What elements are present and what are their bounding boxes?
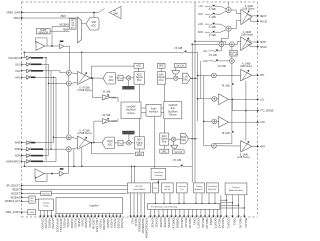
block audio interface bbox=[146, 104, 161, 116]
switch IN2R input bbox=[26, 154, 30, 157]
wire SPK mute L to sum A bbox=[218, 47, 222, 51]
mixer A5 REC sum P bbox=[226, 7, 231, 12]
wire U4 output bbox=[45, 45, 60, 47]
node VREF_SAR junction bbox=[93, 12, 95, 14]
svg-text:RECM: RECM bbox=[260, 21, 267, 23]
svg-text:MICBIAS_EXT: MICBIAS_EXT bbox=[5, 200, 21, 203]
block miniDSP_A digital mixer bbox=[121, 102, 141, 118]
wire MIC bias to charge pump bbox=[35, 199, 38, 201]
pin CPVSS bottom bbox=[43, 210, 45, 216]
wire interrupt stubs to bar bbox=[178, 193, 180, 204]
chip boundary dashed border top bbox=[22, 1, 258, 3]
wire bar to primary links bbox=[220, 199, 227, 201]
svg-text:DAC: DAC bbox=[183, 78, 188, 81]
mux M1 input list box bbox=[70, 19, 77, 29]
wire PGA L output bbox=[91, 77, 103, 79]
wire HPF R to multiplier bbox=[123, 142, 127, 144]
pin DVDD2 bottom bbox=[116, 214, 118, 217]
temp sensor U3 box bbox=[37, 29, 51, 34]
wire MICDET bbox=[22, 193, 41, 195]
wire PGA L AGC feedback bbox=[92, 66, 135, 78]
wire volctrl to trap L bbox=[175, 68, 177, 71]
block ADC signal processing left bbox=[134, 72, 145, 85]
block ADC signal processing right bbox=[135, 137, 145, 149]
wire rail to PGA R bias bbox=[81, 147, 83, 166]
node U12 output junction bbox=[51, 173, 53, 175]
svg-text:TSVDD: TSVDD bbox=[99, 218, 103, 229]
mixer A8 SPK sum B bbox=[230, 42, 235, 47]
svg-text:Supplies: Supplies bbox=[89, 205, 99, 208]
svg-text:AVSS3: AVSS3 bbox=[113, 218, 117, 228]
wire crossfeed column bbox=[231, 63, 233, 83]
svg-text:FTO_SENSE: FTO_SENSE bbox=[260, 111, 274, 113]
block PLL bbox=[152, 183, 158, 193]
wire X3 to left DAC bbox=[178, 77, 182, 79]
wire clocking to PLL arrow bbox=[157, 180, 159, 183]
svg-text:WCLK1: WCLK1 bbox=[188, 218, 192, 229]
wire IN4L lead bbox=[22, 76, 27, 78]
pin WCLK2 bottom bbox=[204, 209, 206, 216]
wire audio IF to miniDSP_B bbox=[161, 107, 164, 109]
svg-text:(1dB Steps): (1dB Steps) bbox=[242, 8, 254, 11]
wire bus to HPL sum bbox=[198, 75, 212, 77]
attenuator SPK mute L bbox=[214, 50, 218, 53]
svg-text:AVDD2: AVDD2 bbox=[70, 218, 74, 228]
block DRC left bbox=[158, 63, 166, 68]
wire SPKM output bbox=[247, 45, 258, 47]
svg-text:Audio I/F: Audio I/F bbox=[208, 188, 217, 191]
pin DVSS bottom bbox=[80, 214, 82, 217]
svg-text:VBAT: VBAT bbox=[13, 16, 20, 20]
dac U11 right DAC bbox=[180, 134, 188, 144]
dac U10 left DAC bbox=[182, 73, 190, 83]
pin LDO_IN bottom bbox=[91, 214, 93, 217]
wire PLL stub to bar bbox=[154, 193, 156, 204]
pin DOUT1 primary bottom bbox=[225, 216, 227, 218]
svg-text:MCLK1: MCLK1 bbox=[180, 218, 184, 228]
wire REC sum M down to SPK bbox=[221, 31, 228, 42]
pin SDA bottom bbox=[144, 193, 146, 217]
svg-text:miniDSP: miniDSP bbox=[168, 105, 177, 107]
mixer A13 HPR sum bbox=[212, 143, 217, 148]
svg-text:(0.5dB Steps): (0.5dB Steps) bbox=[77, 89, 91, 92]
wire RECP output bbox=[248, 14, 258, 17]
wire REC row4 to mixer bbox=[214, 30, 226, 32]
block SPK volume bbox=[230, 50, 237, 56]
svg-text:DAC: DAC bbox=[159, 73, 164, 76]
adc U9 right ADC bbox=[102, 137, 114, 148]
svg-text:GPIO6: GPIO6 bbox=[167, 218, 171, 228]
pin BCLK2 bottom bbox=[200, 209, 202, 216]
pin BCLK1 primary bottom bbox=[243, 216, 245, 218]
svg-text:Interrupt: Interrupt bbox=[178, 185, 186, 188]
svg-text:DIN1: DIN1 bbox=[192, 218, 196, 225]
svg-text:GAIN ADJ: GAIN ADJ bbox=[124, 131, 133, 134]
wire IN3R lead bbox=[22, 148, 27, 150]
block digital mic interface bbox=[161, 183, 173, 193]
wire ADC R to HPF bbox=[114, 142, 118, 144]
wire U12 feedback loop bbox=[36, 174, 48, 182]
svg-text:Signal: Signal bbox=[158, 77, 165, 79]
wire detection to control bbox=[51, 192, 127, 194]
pin SPKP marker bbox=[257, 41, 259, 43]
svg-text:DAC: DAC bbox=[162, 135, 167, 138]
wire U12 output bbox=[44, 173, 59, 175]
wire IN2R bus bar bbox=[31, 155, 43, 157]
wire SAR ADC to VREF rail bbox=[93, 13, 95, 18]
block supplies bbox=[56, 198, 123, 214]
svg-text:DAC: DAC bbox=[181, 139, 186, 142]
resistor R1 bbox=[60, 40, 64, 42]
svg-text:VBAT: VBAT bbox=[60, 15, 66, 18]
wire MICBIAS bbox=[22, 196, 29, 198]
svg-text:LOL: LOL bbox=[260, 99, 265, 101]
wire secondary extra pin bbox=[220, 195, 222, 217]
pin DMDIN bottom bbox=[175, 209, 177, 216]
svg-text:SENSOR: SENSOR bbox=[38, 32, 48, 34]
wire bus to HPR sum bbox=[204, 145, 212, 147]
block DAC signal processing right bbox=[160, 133, 169, 145]
svg-text:WCLK1: WCLK1 bbox=[238, 218, 242, 229]
wire SPKP output bbox=[247, 40, 258, 42]
wire PGA L to MAL bbox=[93, 78, 103, 97]
svg-text:(1dB Steps): (1dB Steps) bbox=[240, 65, 252, 68]
wire X1 to ADC proc bbox=[131, 77, 134, 79]
svg-text:CPVSS: CPVSS bbox=[44, 218, 48, 228]
svg-text:(1dB Steps): (1dB Steps) bbox=[241, 34, 253, 37]
svg-text:ADC: ADC bbox=[91, 24, 96, 27]
wire IN1L lead bbox=[22, 57, 27, 59]
svg-text:GPIO4: GPIO4 bbox=[159, 218, 163, 228]
block miniDSP_B digital mixer bbox=[164, 102, 182, 119]
node DAC L output junctions bbox=[191, 78, 193, 80]
svg-text:RECP: RECP bbox=[260, 16, 267, 18]
multiplier X2 right digital volume bbox=[127, 141, 131, 145]
block secondary audio interface bbox=[206, 183, 218, 193]
wire HPR sum to amp bbox=[216, 145, 240, 147]
pin GPIO4 bottom bbox=[158, 209, 160, 216]
wire matrix feed mixer R2 bbox=[51, 148, 66, 150]
wire X1 to gain block bbox=[128, 80, 130, 86]
switch IN4R input bbox=[26, 141, 30, 144]
wire vertical bus B bbox=[191, 44, 193, 182]
multiplier X3 left DAC volume bbox=[174, 76, 178, 80]
wire ADC L to HPF bbox=[115, 77, 118, 79]
svg-text:Signal: Signal bbox=[161, 139, 168, 141]
wire secondary stubs to bar bbox=[208, 193, 210, 204]
wire SPK sums link bbox=[224, 43, 230, 45]
pin DMCLK bottom bbox=[171, 209, 173, 216]
pin VNEG bottom bbox=[47, 210, 49, 216]
svg-text:IN4R: IN4R bbox=[15, 143, 21, 145]
wire IN1R bus bar bbox=[31, 160, 43, 162]
node bus junctions bbox=[194, 40, 196, 42]
svg-text:-78..0dB: -78..0dB bbox=[174, 48, 183, 50]
mixer A9 SPK sum C bbox=[230, 59, 235, 64]
block interrupt control bbox=[176, 183, 187, 193]
wire matrix feed mixer R1 bbox=[54, 136, 67, 138]
amp U16 headphone left bbox=[241, 70, 252, 81]
wire rail bottom analog bypass bbox=[24, 165, 177, 167]
wire IN2L lead bbox=[22, 63, 27, 65]
svg-text:VREFP: VREFP bbox=[106, 218, 110, 228]
node U4 output junction bbox=[51, 45, 53, 47]
wire control riser 1 bbox=[131, 166, 133, 183]
svg-text:DVSS2: DVSS2 bbox=[120, 218, 124, 228]
svg-text:DVDD2: DVDD2 bbox=[117, 218, 121, 229]
switch IN1R input bbox=[26, 160, 30, 163]
wire DAC SP R to DRC R bbox=[163, 145, 165, 149]
svg-text:Right: Right bbox=[181, 136, 187, 139]
wire shared bias column bbox=[68, 75, 70, 81]
svg-text:-6..6dB: -6..6dB bbox=[208, 17, 216, 19]
block SPI I2C control bbox=[128, 183, 151, 193]
svg-text:MICBIAS: MICBIAS bbox=[11, 196, 21, 199]
pin RESET marker bbox=[21, 188, 23, 190]
mixer A2 left PGA sum 2 bbox=[66, 81, 71, 86]
pin IN4L marker bbox=[21, 76, 23, 78]
pin SCL bottom bbox=[140, 193, 142, 217]
wire control riser 2 bbox=[134, 166, 136, 183]
svg-text:ADC: ADC bbox=[109, 79, 114, 82]
pin SCLK/SSZ bottom bbox=[130, 193, 132, 217]
mixer A7 SPK sum A bbox=[219, 42, 224, 47]
pin IN2R marker bbox=[21, 155, 23, 157]
svg-text:Vol Ctrl: Vol Ctrl bbox=[175, 151, 183, 154]
svg-text:Left: Left bbox=[109, 76, 113, 79]
wire micbias row into mux bbox=[52, 27, 70, 47]
switch IN1L input bbox=[26, 56, 30, 59]
pga U6 left PGA bbox=[78, 72, 91, 85]
pin SPKVDD bottom bbox=[55, 214, 57, 217]
attenuator REC row4 mute bbox=[210, 31, 215, 34]
wire rail to PGA L bias bbox=[81, 52, 83, 73]
pin SDO/MISO bottom bbox=[137, 193, 139, 217]
block DAC signal processing left bbox=[157, 72, 165, 85]
wire IN3R bus bar bbox=[31, 148, 43, 150]
wire IN3L to mixer bbox=[43, 71, 66, 73]
svg-text:IN2L: IN2L bbox=[15, 64, 21, 66]
switch IN3L input bbox=[26, 69, 30, 72]
adc U2 SAR ADC block bbox=[86, 18, 99, 31]
svg-text:DIN1: DIN1 bbox=[232, 218, 236, 225]
wire SPK sum B to amp bbox=[234, 42, 240, 45]
svg-text:LOL: LOL bbox=[199, 6, 204, 8]
pin SPI_SELECT marker bbox=[21, 185, 23, 187]
wire RECM output bbox=[248, 19, 258, 21]
block PoR bbox=[28, 210, 36, 215]
svg-text:VREF_SAR: VREF_SAR bbox=[6, 11, 20, 15]
svg-text:LOR: LOR bbox=[198, 24, 203, 26]
svg-text:MAR: MAR bbox=[112, 120, 117, 123]
wire DRC L to DAC SP L bbox=[160, 68, 162, 71]
svg-text:-78..0dB: -78..0dB bbox=[172, 160, 181, 162]
filter F2 HPF right bbox=[118, 140, 123, 145]
svg-text:Left: Left bbox=[184, 76, 188, 79]
pin IN1R marker bbox=[21, 160, 23, 162]
wire VREF_AUDIO bbox=[22, 211, 28, 213]
wire SPK mute R to sum C bbox=[218, 60, 230, 62]
svg-text:Clocking: Clocking bbox=[154, 175, 163, 177]
block pin muxing bar bbox=[148, 203, 220, 209]
mixer A11 LOL sum bbox=[212, 96, 217, 101]
pin AVSS1 bottom bbox=[65, 214, 67, 217]
wire bus to LOR sum bbox=[204, 120, 212, 122]
svg-text:AGC: AGC bbox=[137, 153, 142, 156]
svg-text:IN4L: IN4L bbox=[15, 77, 21, 79]
wire HPR output bbox=[252, 145, 258, 147]
svg-text:SPKVDD1: SPKVDD1 bbox=[55, 218, 59, 232]
adc U7 left ADC bbox=[103, 73, 115, 84]
pin MICBIAS_EXT marker bbox=[21, 200, 23, 202]
wire HPF L to multiplier bbox=[123, 77, 127, 79]
wire LOL output bbox=[228, 98, 257, 100]
svg-text:Secondary: Secondary bbox=[208, 186, 218, 188]
amp MAR mixer amp right bbox=[102, 119, 110, 124]
pin MICVDD bottom bbox=[101, 214, 103, 217]
wire IN2R lead bbox=[22, 155, 27, 157]
attenuator REC row2 mute bbox=[210, 13, 215, 16]
wire MICBIAS_EXT bbox=[22, 200, 29, 202]
svg-text:Volume: Volume bbox=[127, 113, 135, 115]
svg-text:SPI / I²C: SPI / I²C bbox=[135, 185, 143, 188]
svg-text:Audio: Audio bbox=[151, 107, 158, 110]
wire X2 to gain block bbox=[128, 134, 130, 141]
svg-text:IN3L: IN3L bbox=[15, 71, 21, 73]
svg-text:MCLK2: MCLK2 bbox=[221, 218, 225, 228]
wire HPL sense column bbox=[245, 81, 247, 141]
wire sum B to SPK volume bbox=[231, 47, 233, 51]
attenuator mute arrow top rail bbox=[182, 51, 187, 54]
wire left DAC output bbox=[191, 77, 198, 79]
svg-text:GPIO5: GPIO5 bbox=[163, 218, 167, 228]
wire ADC SP R to AGC R bbox=[139, 149, 141, 152]
wire VREF_SAR rail bbox=[22, 12, 99, 14]
svg-text:MICBIAS: MICBIAS bbox=[60, 24, 70, 27]
wire primary pin columns bbox=[225, 195, 227, 217]
wire PGA R to MAR bbox=[94, 121, 103, 143]
wire vertical bus A bbox=[194, 2, 196, 183]
wire miniDSP_B up to DAC SP L bbox=[163, 84, 165, 102]
pin VREF_AUDIO marker bbox=[21, 211, 23, 213]
block MIC bias bbox=[29, 196, 35, 203]
op-amp U1 SAR reference buffer bbox=[110, 6, 122, 18]
wire REC row2 to mixer bbox=[214, 11, 226, 14]
svg-text:Pin Muxing / Clock Routing: Pin Muxing / Clock Routing bbox=[151, 206, 178, 209]
mixer A1 left PGA sum 1 bbox=[66, 70, 71, 75]
block tertiary audio interface bbox=[194, 183, 205, 193]
svg-text:SPK_IN: SPK_IN bbox=[230, 54, 237, 56]
wire audio IF down to clocking bbox=[154, 116, 156, 168]
amp MAL mixer amp left bbox=[102, 95, 110, 100]
node matrix junctions bbox=[48, 83, 49, 84]
svg-text:DOUT1: DOUT1 bbox=[226, 218, 230, 228]
wire LOR output bbox=[228, 121, 257, 123]
node PGA R output junction bbox=[91, 142, 93, 144]
wire crossfeed to HPR sum bbox=[214, 135, 232, 144]
node riser junction bbox=[24, 52, 26, 54]
pin IN3R marker bbox=[21, 148, 23, 150]
pin HPR marker bbox=[257, 145, 259, 147]
wire matrix vertical 2 bbox=[48, 64, 50, 155]
pin HPL marker bbox=[257, 74, 259, 76]
wire MAL to miniDSP1 bbox=[110, 97, 118, 102]
wire bus to SPK sum A bbox=[192, 43, 219, 45]
block fine gain left (dark) bbox=[123, 86, 135, 89]
pin IOVSS bottom bbox=[87, 214, 89, 217]
wire IN3L bus bar bbox=[31, 70, 43, 72]
block AGC right bbox=[135, 152, 143, 155]
svg-text:Charge: Charge bbox=[43, 202, 51, 205]
switch IN3R input bbox=[26, 148, 30, 151]
wire LOR sum to amp bbox=[217, 120, 219, 122]
pin MICBIAS marker bbox=[21, 196, 23, 198]
wire tertiary stubs to bar bbox=[195, 193, 197, 204]
wire HPL output bbox=[252, 74, 258, 76]
svg-text:LOR: LOR bbox=[260, 122, 265, 124]
wire matrix feed mixer L2 bbox=[49, 82, 67, 84]
pin WCLK1 primary bottom bbox=[237, 216, 239, 218]
pin DOUT1 bottom bbox=[196, 209, 198, 216]
svg-text:AVDD1: AVDD1 bbox=[63, 218, 67, 228]
pin WCLK1 bottom bbox=[187, 209, 189, 216]
svg-text:-6..6dB: -6..6dB bbox=[208, 35, 216, 37]
pin LOR marker bbox=[257, 121, 259, 123]
pin RECP marker bbox=[257, 15, 259, 17]
svg-text:Audio I/F: Audio I/F bbox=[195, 188, 204, 191]
wire input row1 riser to rail bbox=[23, 52, 25, 58]
svg-text:HPVDD: HPVDD bbox=[51, 218, 55, 229]
pin GPIO5 bottom bbox=[162, 209, 164, 216]
svg-text:LDO_OUT: LDO_OUT bbox=[95, 218, 99, 232]
svg-text:Tertiary: Tertiary bbox=[196, 185, 203, 188]
wire top rail to bus bbox=[186, 51, 197, 53]
svg-text:Right: Right bbox=[107, 140, 113, 143]
svg-text:SAR: SAR bbox=[91, 21, 96, 24]
pin MCLK2 primary bottom bbox=[220, 216, 222, 218]
svg-text:Ctrl: Ctrl bbox=[180, 188, 184, 191]
pin DVDD bottom bbox=[76, 214, 78, 217]
svg-text:-6..6dB: -6..6dB bbox=[208, 9, 216, 11]
wire mixers to PGA R bbox=[71, 137, 77, 138]
svg-text:Volume: Volume bbox=[169, 115, 177, 117]
svg-text:-78..0dB: -78..0dB bbox=[221, 133, 230, 135]
svg-text:SCLK: SCLK bbox=[134, 218, 138, 226]
pin AVDD1 bottom bbox=[62, 214, 64, 217]
svg-text:VREF_AUDIO: VREF_AUDIO bbox=[5, 211, 20, 214]
wire mixer R2 aux column bbox=[73, 149, 75, 166]
wire right DAC output bbox=[189, 138, 198, 140]
switch S1 to buffer bbox=[99, 9, 105, 13]
wire input row IN1R riser to rail bbox=[23, 161, 25, 166]
svg-text:GPIO2: GPIO2 bbox=[150, 218, 154, 228]
svg-text:Interface: Interface bbox=[149, 111, 159, 114]
svg-text:Dig Mixer: Dig Mixer bbox=[168, 110, 178, 113]
svg-text:IOVDD: IOVDD bbox=[84, 218, 88, 228]
svg-text:LDO_IN: LDO_IN bbox=[91, 218, 95, 229]
pin RECM marker bbox=[257, 20, 259, 22]
svg-text:Primary: Primary bbox=[232, 186, 240, 189]
wire vertical bus E bbox=[203, 76, 205, 146]
pin AVDD2 bottom bbox=[69, 214, 71, 217]
pin MCLK2 bottom bbox=[217, 209, 219, 216]
pin TSVDD bottom bbox=[98, 214, 100, 217]
svg-text:miniDSP: miniDSP bbox=[127, 107, 136, 109]
svg-text:SPKP: SPKP bbox=[260, 42, 267, 44]
block fine gain right (dark) bbox=[123, 131, 135, 134]
pin GPIO6 bottom bbox=[166, 209, 168, 216]
block volume control left bbox=[175, 63, 187, 67]
